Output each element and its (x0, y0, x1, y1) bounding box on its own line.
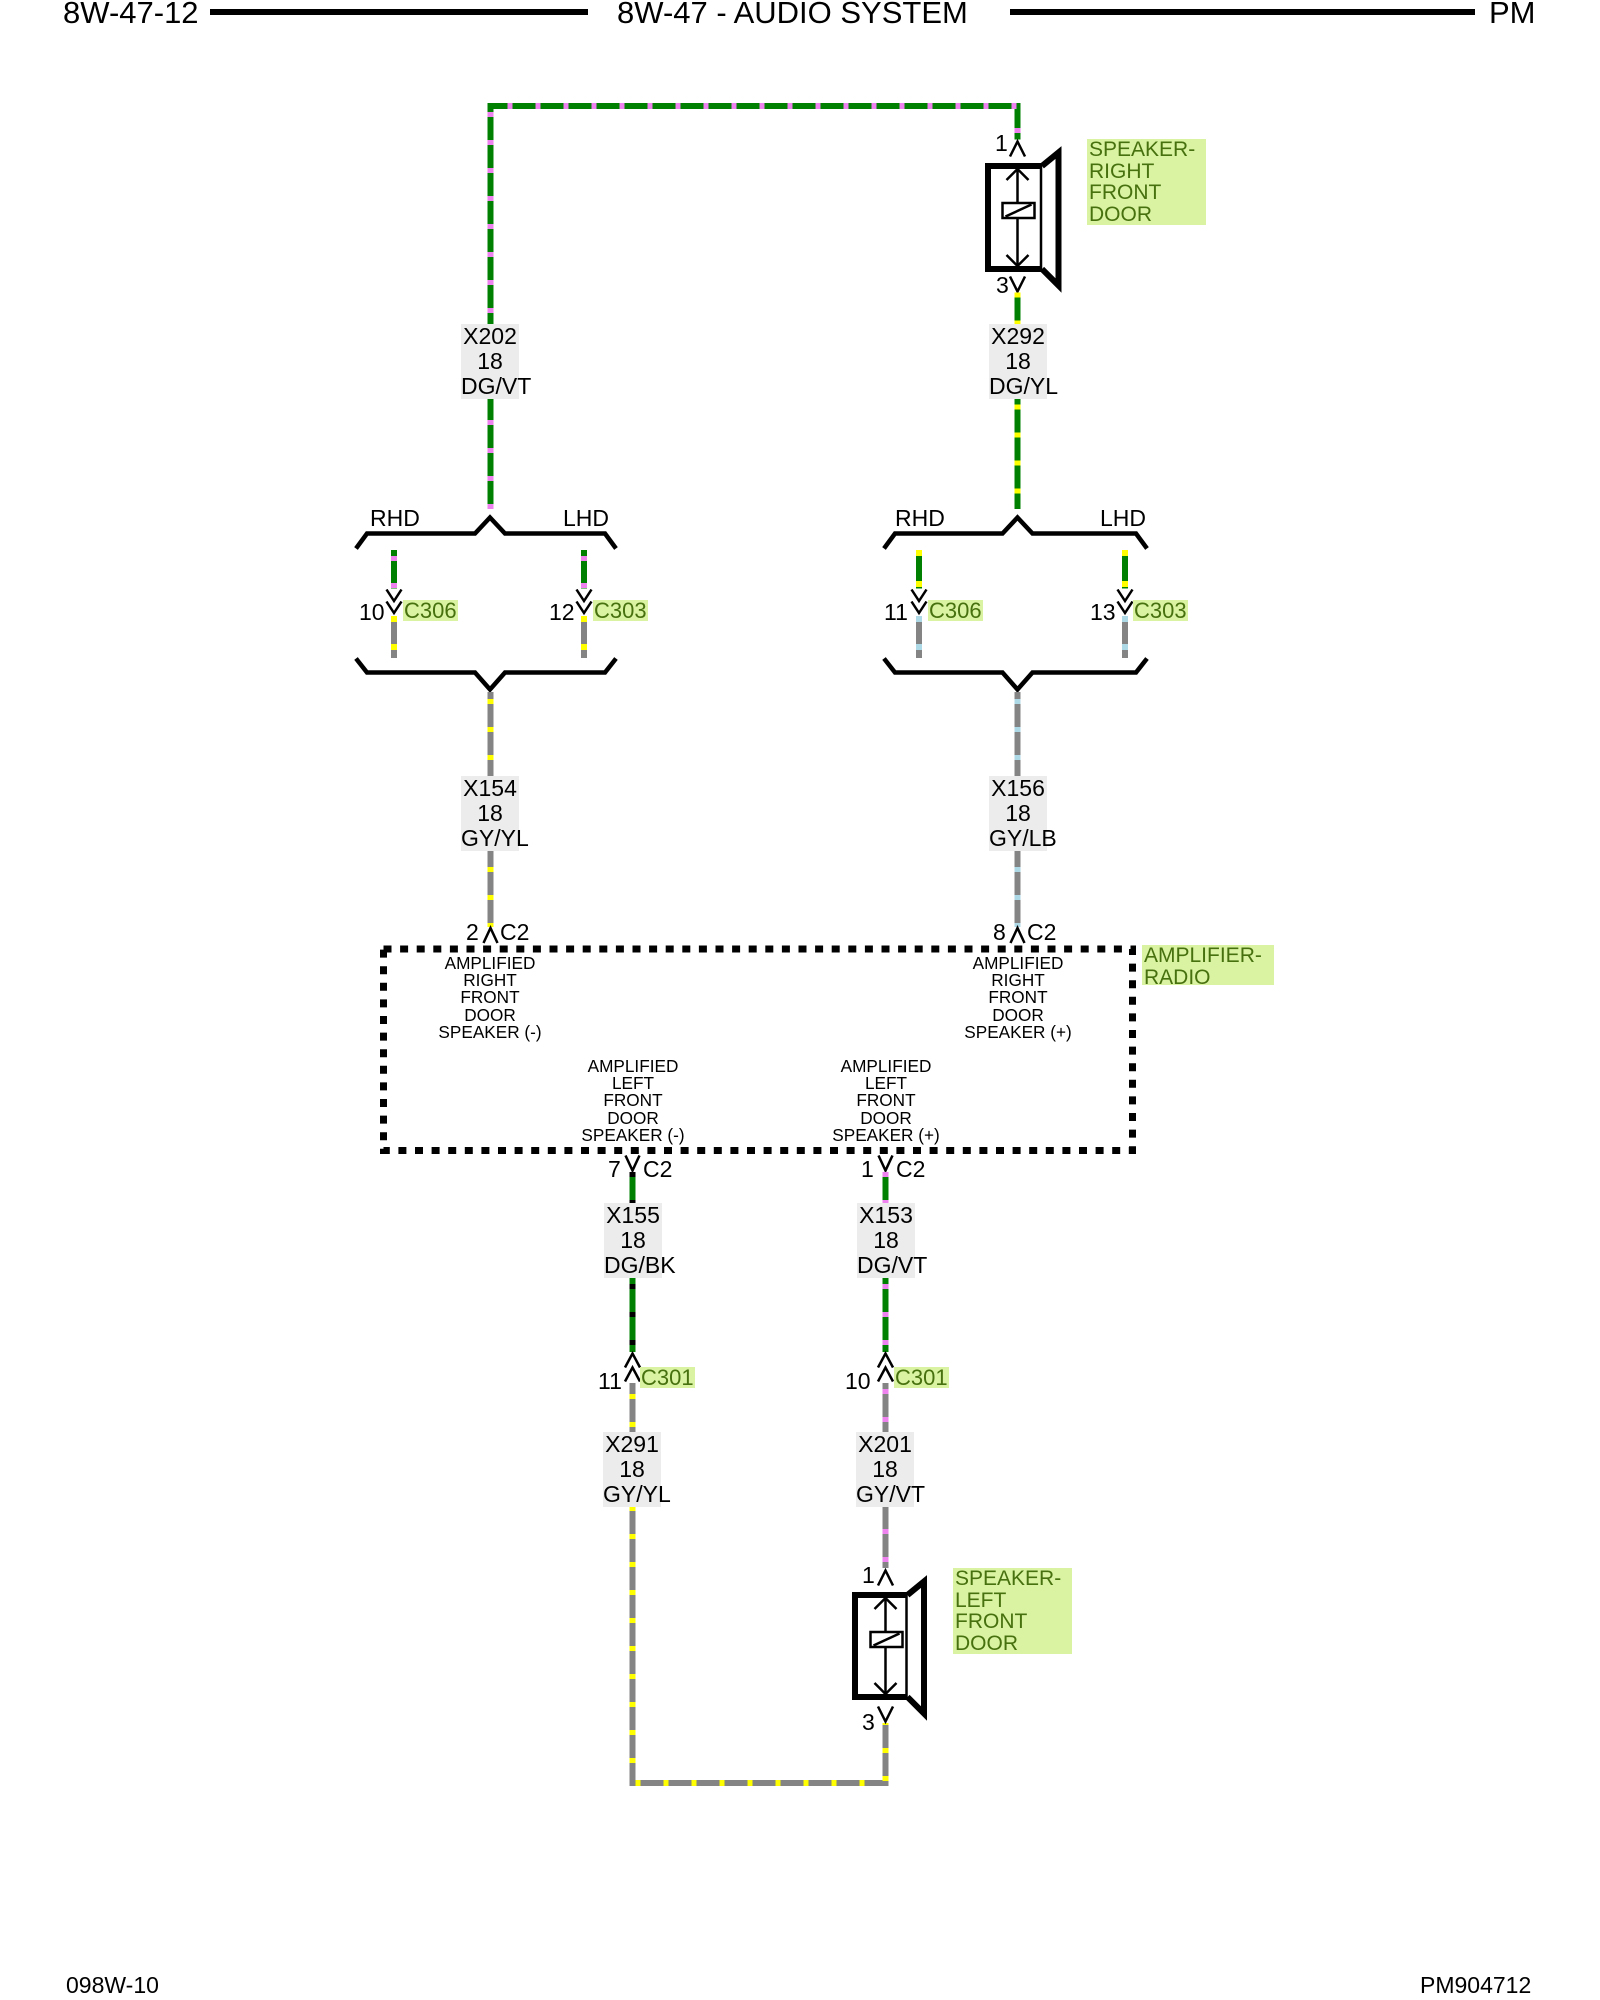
pin number 3 (left front speaker) (862, 1711, 875, 1734)
pin number 12 (549, 601, 575, 624)
amplifier pin 7 C2 arrow (626, 1156, 640, 1171)
footer right: PM904712 (1420, 1973, 1531, 1998)
violet dashes on RHD stub (391, 556, 397, 588)
pin number 2 C2 (amp top left) (466, 921, 479, 944)
connector name C2 at amp pin 1 (896, 1158, 925, 1181)
speaker right front door pin 3 arrow (1010, 277, 1025, 292)
amp text: amplified right front door speaker (-) (438, 955, 541, 1041)
pin number 13 (1090, 601, 1116, 624)
wire X202 DG/VT from amplifier to right-front speaker pin 1 (U-shape) (491, 106, 1018, 509)
wire LHD stub DG/VT (pin 12 C303) (581, 550, 587, 589)
wire GY/YL stub below C303 (581, 616, 587, 658)
amplifier pin 8 C2 arrow (1011, 928, 1025, 943)
header title left: 8W-47-12 (63, 0, 199, 28)
header rule left segment (210, 9, 588, 15)
pin number 8 C2 (amp top right) (993, 921, 1006, 944)
header page code right: PM (1489, 0, 1536, 28)
amplifier pin 2 C2 arrow (484, 928, 498, 943)
amp text: amplified left front door speaker (-) (581, 1058, 684, 1144)
wire label X291 18 GY/YL (603, 1432, 661, 1507)
connector label C301 (right) (894, 1367, 949, 1388)
pin number 7 C2 (amp bottom left) (608, 1158, 621, 1181)
wire label X153 18 DG/VT (857, 1203, 915, 1278)
wire X155 DG/BK from amp pin 7 to C301 pin 11 (630, 1172, 636, 1352)
brace bottom right group (884, 659, 1147, 690)
wire X291 GY/YL from C301 to left front speaker pin 3 (L-shape) (633, 1383, 886, 1783)
pin number 11 (C301) (598, 1370, 622, 1393)
wire RHD stub DG/VT (pin 10 C306) (391, 550, 397, 589)
connector name C2 at amp pin 2 (500, 921, 529, 944)
pin number 11 (884, 601, 908, 624)
pin number 1 (left front speaker) (862, 1564, 875, 1587)
yellow dashes on right RHD stub (916, 550, 922, 587)
yellow dashes on C306 stub (391, 616, 397, 650)
connector arrow pin 10 C306 (387, 590, 402, 614)
connector label C306 (right) (928, 600, 983, 621)
speaker left front door symbol (855, 1582, 924, 1714)
brace top left group (356, 518, 616, 549)
connector label C303 (left) (593, 600, 648, 621)
speaker left front door pin 1 arrow (878, 1571, 893, 1586)
label SPEAKER-LEFT FRONT DOOR (953, 1568, 1072, 1654)
wire label X154 18 GY/YL (461, 776, 519, 851)
speaker left front door pin 3 arrow (878, 1707, 893, 1722)
wire label X202 18 DG/VT (461, 324, 519, 399)
header title center: 8W-47 - AUDIO SYSTEM (617, 0, 968, 28)
pin number 10 (C301) (845, 1370, 871, 1393)
header rule right segment (1010, 9, 1475, 15)
pin number 1 (right front speaker) (995, 132, 1008, 155)
brace bottom left group (356, 659, 616, 690)
wire label X201 18 GY/VT (856, 1432, 914, 1507)
wire LHD stub DG/YL (pin 13 C303) (1122, 550, 1128, 589)
brace top right group (884, 518, 1147, 549)
connector arrow pin 11 C306 (912, 590, 927, 614)
connector name C2 at amp pin 8 (1027, 921, 1056, 944)
connector label C303 (right) (1133, 600, 1188, 621)
LHD label right group (1100, 506, 1146, 531)
speaker right front door pin 1 arrow (1010, 142, 1025, 157)
wire X201 GY/VT from C301 to left front speaker pin 1 (883, 1383, 889, 1568)
wire label X155 18 DG/BK (604, 1203, 662, 1278)
pin number 1 C2 (amp bottom right) (861, 1158, 874, 1181)
amp text: amplified right front door speaker (+) (964, 955, 1071, 1041)
speaker right front door symbol (988, 153, 1059, 286)
label SPEAKER-RIGHT FRONT DOOR (1087, 139, 1206, 225)
wire X292 DG/YL below right front speaker (1015, 293, 1021, 510)
light blue dashes on right C303 stub (1122, 616, 1128, 650)
amplifier pin 1 C2 arrow (879, 1156, 893, 1171)
connector label C306 (left) (403, 600, 458, 621)
light blue dashes on right C306 stub (916, 616, 922, 650)
connector label C301 (left) (640, 1367, 695, 1388)
RHD label right group (895, 506, 945, 531)
wire X156 GY/LB to amplifier pin 8 C2 (1015, 692, 1021, 927)
wire X153 DG/VT from amp pin 1 to C301 pin 10 (883, 1172, 889, 1352)
amplifier-radio name label (1142, 945, 1274, 985)
connector arrow pin 13 C303 (1118, 590, 1133, 614)
RHD label left group (370, 506, 420, 531)
connector arrow pin 11 C301 (625, 1354, 640, 1382)
wire label X156 18 GY/LB (989, 776, 1047, 851)
LHD label left group (563, 506, 609, 531)
yellow dashes on right LHD stub (1122, 550, 1128, 587)
wire X154 GY/YL to amplifier pin 2 C2 (488, 692, 494, 927)
pin number 10 (359, 601, 385, 624)
wire label X292 18 DG/YL (989, 324, 1047, 399)
violet dashes on LHD stub (581, 556, 587, 588)
wire RHD stub DG/YL (pin 11 C306) (916, 550, 922, 589)
amplifier-radio dashed box (384, 949, 1133, 1151)
connector name C2 at amp pin 7 (643, 1158, 672, 1181)
wire GY/LB stub below C306 right (916, 616, 922, 658)
connector arrow pin 12 C303 (577, 590, 592, 614)
wire GY/YL stub below C306 (391, 616, 397, 658)
pin number 3 (right front speaker) (996, 274, 1009, 297)
yellow dashes on C303 stub (581, 616, 587, 650)
connector arrow pin 10 C301 (878, 1354, 893, 1382)
wire GY/LB stub below C303 right (1122, 616, 1128, 658)
amp text: amplified left front door speaker (+) (832, 1058, 939, 1144)
footer left: 098W-10 (66, 1973, 159, 1998)
